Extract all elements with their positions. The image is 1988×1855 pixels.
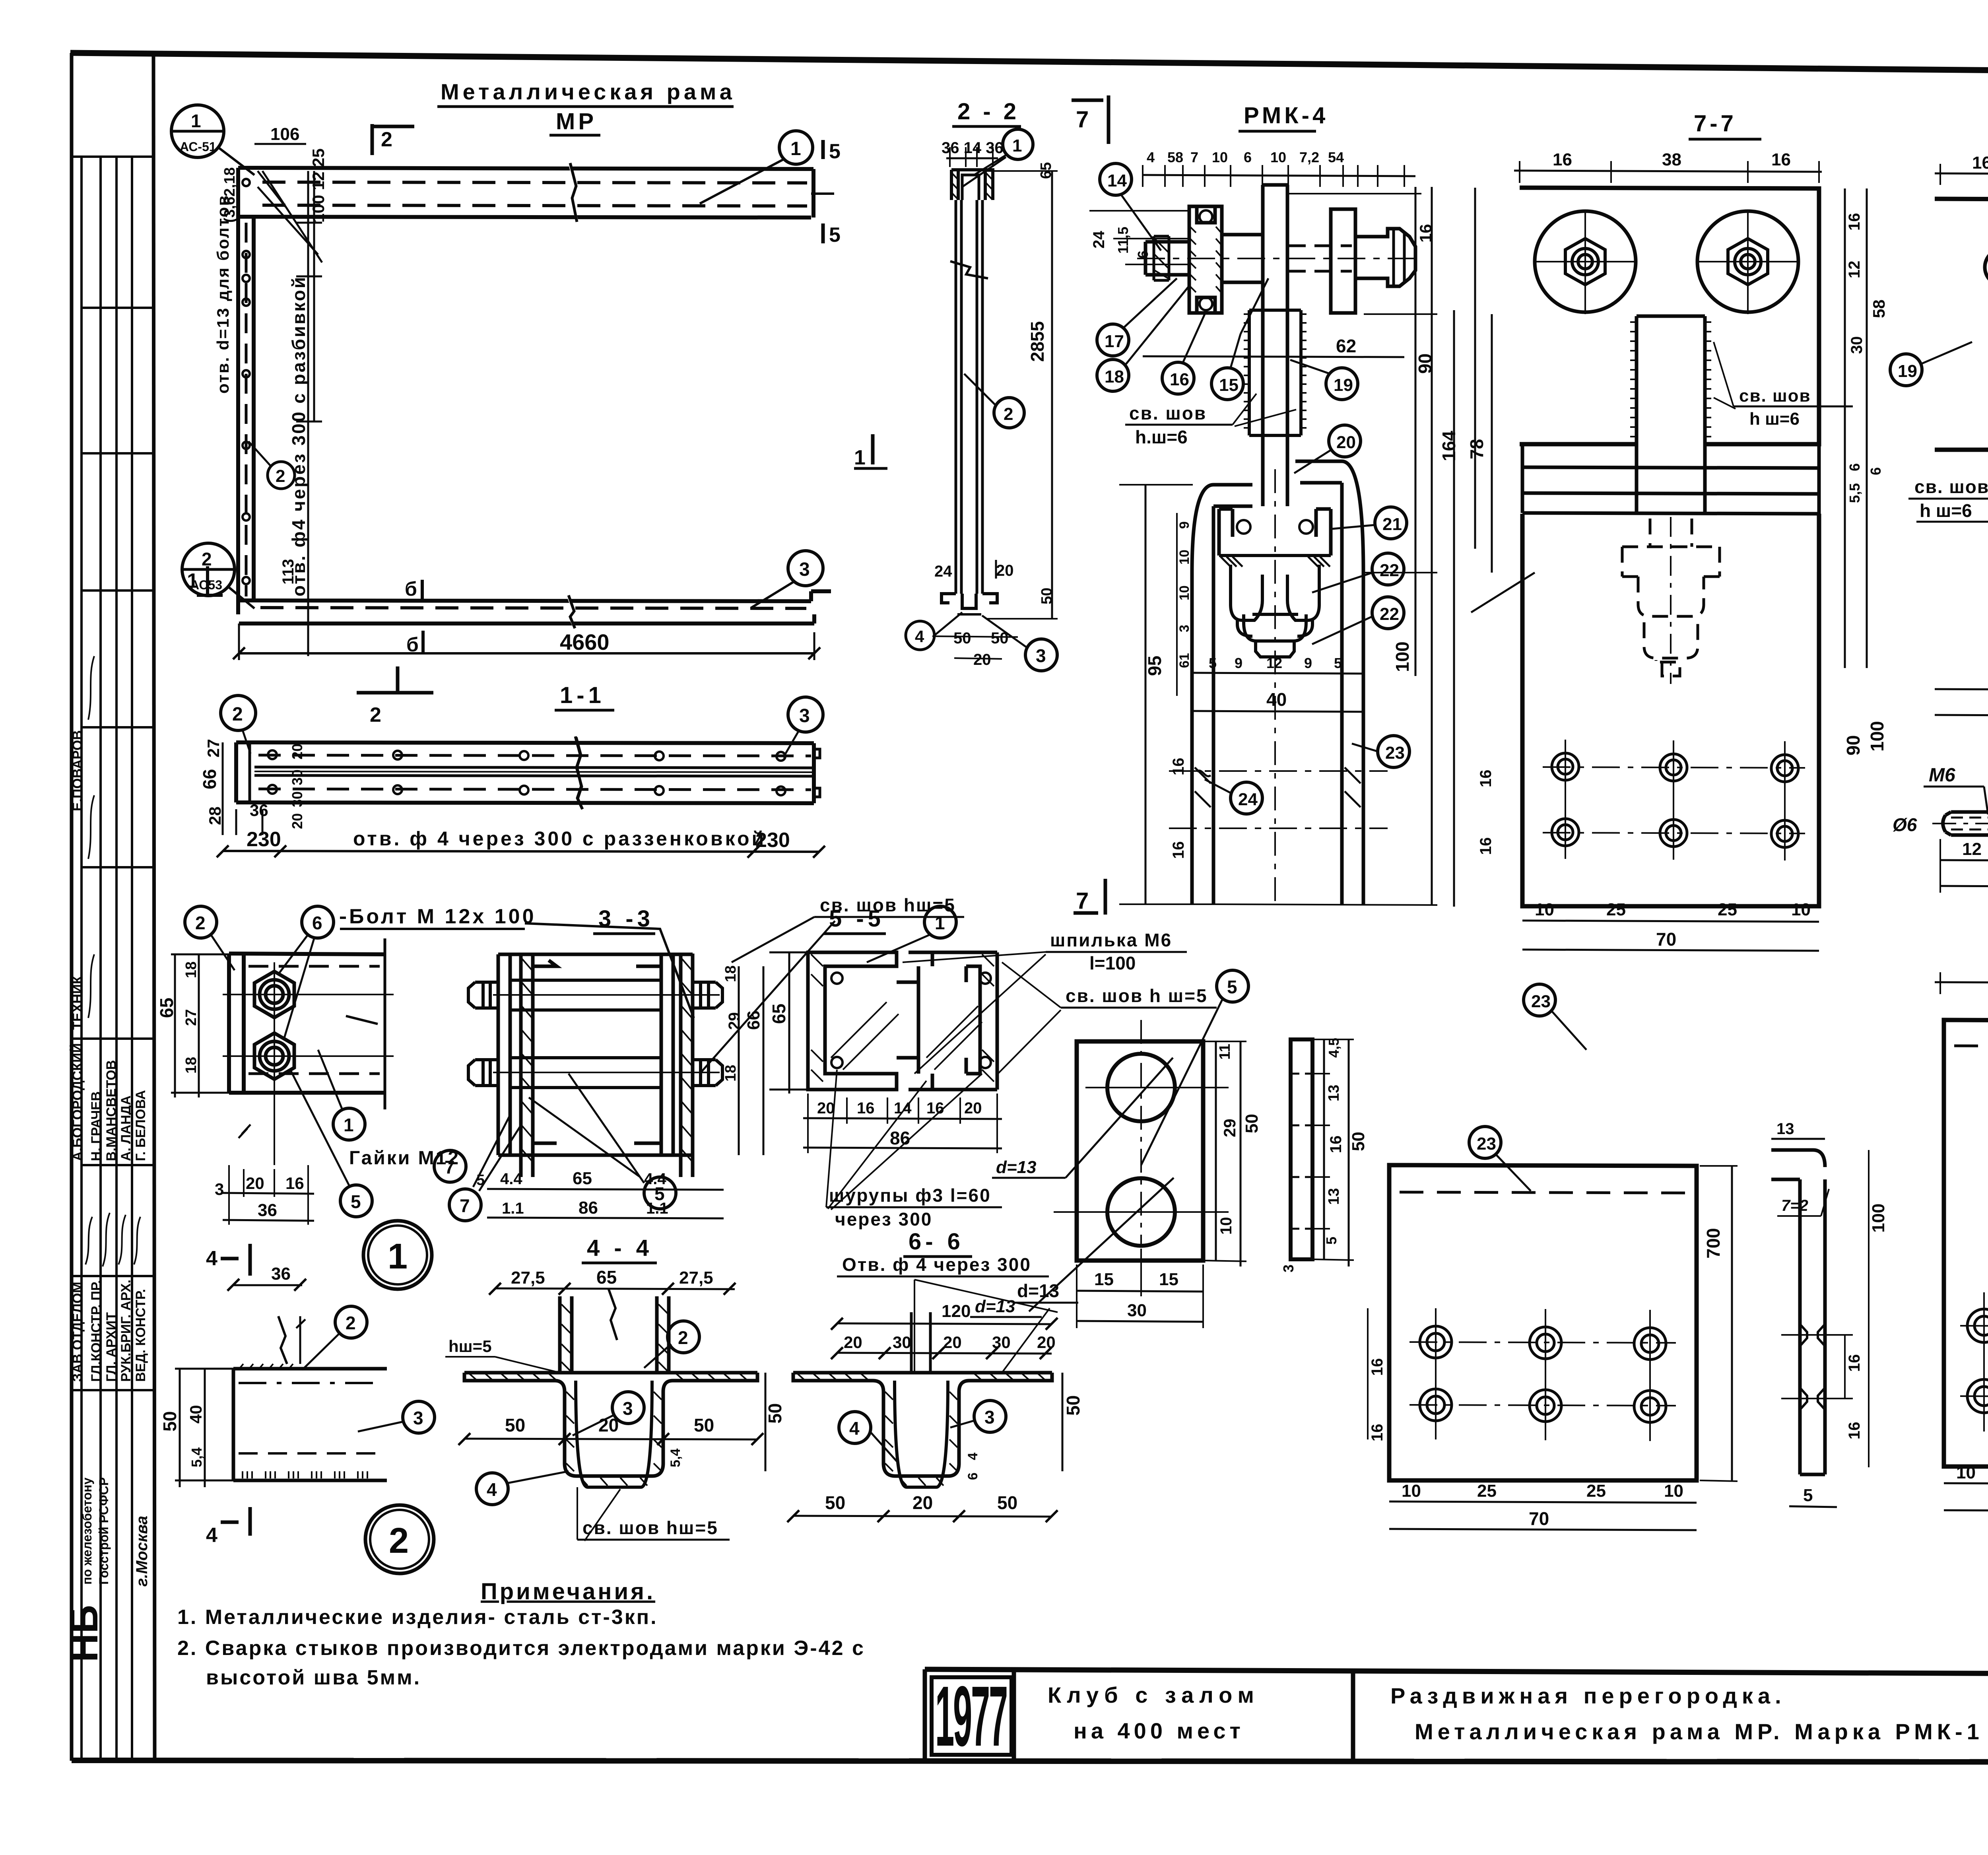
svg-text:Металлическая рама МР. Марк: Металлическая рама МР. Марка РМК-1 bbox=[1415, 1719, 1984, 1744]
svg-text:12: 12 bbox=[1266, 655, 1282, 671]
svg-text:Н. ГРАЧЕВ: Н. ГРАЧЕВ bbox=[89, 1092, 104, 1162]
svg-text:16: 16 bbox=[1170, 758, 1187, 776]
hatch bbox=[469, 1304, 747, 1486]
svg-text:20: 20 bbox=[817, 1099, 835, 1117]
svg-text:90: 90 bbox=[1843, 735, 1864, 756]
svg-text:1: 1 bbox=[790, 138, 801, 159]
section: top flange with two webs bbox=[464, 1296, 757, 1487]
svg-text:1-1: 1-1 bbox=[560, 682, 605, 708]
svg-text:Госстрой РСФСР: Госстрой РСФСР bbox=[97, 1477, 111, 1585]
svg-text:6: 6 bbox=[1135, 251, 1151, 258]
svg-text:4: 4 bbox=[965, 1453, 980, 1460]
svg-text:65: 65 bbox=[769, 1004, 789, 1024]
bearing housing bbox=[1189, 206, 1222, 313]
central tongue with ruler hatch bbox=[1637, 316, 1705, 513]
svg-text:2: 2 bbox=[678, 1327, 688, 1348]
hatch strip in wheel box bbox=[1221, 557, 1330, 567]
svg-text:3: 3 bbox=[799, 705, 810, 726]
svg-text:16: 16 bbox=[1369, 1358, 1386, 1376]
svg-text:4: 4 bbox=[1147, 149, 1155, 165]
svg-text:18: 18 bbox=[183, 1057, 200, 1074]
svg-text:1.1: 1.1 bbox=[646, 1200, 668, 1217]
svg-text:4: 4 bbox=[849, 1418, 860, 1439]
svg-text:2: 2 bbox=[276, 466, 285, 486]
wheels below bbox=[1231, 565, 1319, 657]
svg-text:4.4: 4.4 bbox=[644, 1170, 666, 1188]
svg-text:29: 29 bbox=[726, 1012, 743, 1030]
lower plate bbox=[1522, 514, 1819, 906]
svg-text:20: 20 bbox=[246, 1174, 264, 1193]
svg-text:23: 23 bbox=[1385, 743, 1405, 763]
dims bbox=[1940, 860, 1988, 861]
svg-text:5: 5 bbox=[476, 1172, 485, 1189]
right stack plates bbox=[660, 954, 663, 1155]
big wheels bbox=[1535, 211, 1636, 312]
section mark 1 right of top bar bbox=[871, 434, 875, 464]
svg-text:25: 25 bbox=[1606, 900, 1626, 919]
svg-text:20: 20 bbox=[289, 744, 305, 759]
svg-text:16: 16 bbox=[1477, 770, 1495, 788]
svg-text:27,5: 27,5 bbox=[511, 1268, 545, 1288]
top/bottom connecting profiles bbox=[498, 953, 693, 956]
left vertical bar of frame bbox=[238, 168, 254, 614]
body bbox=[1943, 807, 1988, 840]
svg-text:13: 13 bbox=[1326, 1188, 1342, 1205]
bolt protrusion right bbox=[1355, 229, 1415, 286]
section mark 2 top bbox=[372, 124, 414, 155]
svg-text:2: 2 bbox=[389, 1521, 409, 1561]
svg-text:5: 5 bbox=[1334, 655, 1342, 671]
svg-text:16: 16 bbox=[1416, 224, 1435, 243]
svg-text:1. Металлические изделия- ста: 1. Металлические изделия- сталь ст-3кп. bbox=[177, 1606, 658, 1629]
svg-text:36: 36 bbox=[258, 1200, 277, 1220]
svg-text:2. Сварка стыков производитс: 2. Сварка стыков производится электродам… bbox=[177, 1637, 865, 1660]
svg-text:30: 30 bbox=[289, 791, 305, 807]
svg-text:св. шов: св. шов bbox=[1914, 476, 1988, 497]
svg-text:(3,62,18: (3,62,18 bbox=[221, 167, 238, 223]
corner diagonals leaders bbox=[258, 171, 322, 262]
bottom dims bbox=[487, 1189, 724, 1190]
svg-text:230: 230 bbox=[247, 828, 281, 851]
svg-text:90: 90 bbox=[1415, 354, 1435, 374]
svg-text:21: 21 bbox=[1382, 515, 1402, 534]
svg-text:50: 50 bbox=[825, 1492, 845, 1513]
svg-text:РУК.БРИГ. АРХ.: РУК.БРИГ. АРХ. bbox=[118, 1280, 134, 1382]
6 holes bbox=[1552, 753, 1798, 847]
svg-text:1: 1 bbox=[1012, 136, 1022, 155]
dashed bolt assembly bbox=[1622, 519, 1720, 676]
svg-text:20: 20 bbox=[964, 1099, 982, 1117]
svg-text:113: 113 bbox=[280, 559, 297, 585]
svg-text:61: 61 bbox=[1177, 653, 1192, 668]
svg-text:36 14 36: 36 14 36 bbox=[942, 139, 1004, 157]
svg-text:16: 16 bbox=[1972, 153, 1988, 173]
hex nuts bbox=[254, 971, 294, 1079]
svg-text:10: 10 bbox=[1535, 900, 1554, 919]
right dim stack bbox=[1415, 187, 1432, 904]
svg-text:13: 13 bbox=[1326, 1085, 1342, 1101]
vertical plate bbox=[229, 938, 385, 1109]
holes d=8 bbox=[1985, 249, 1988, 286]
break bbox=[950, 261, 988, 278]
svg-text:10: 10 bbox=[1402, 1481, 1421, 1501]
svg-text:9: 9 bbox=[1304, 655, 1312, 671]
svg-text:10: 10 bbox=[1664, 1481, 1683, 1501]
holes in vertical bar bbox=[243, 179, 250, 584]
leader d=13 bbox=[914, 1280, 1058, 1373]
svg-text:h ш=6: h ш=6 bbox=[1749, 409, 1800, 429]
svg-text:11,5: 11,5 bbox=[1115, 227, 1131, 254]
svg-text:на 400 мест: на 400 мест bbox=[1074, 1718, 1244, 1743]
svg-text:3: 3 bbox=[413, 1408, 423, 1428]
inner U channel bbox=[1233, 509, 1316, 537]
svg-text:2 - 2: 2 - 2 bbox=[957, 99, 1019, 124]
balloon 19 leader on left plate bbox=[1471, 573, 1535, 612]
svg-text:3: 3 bbox=[1036, 645, 1046, 666]
svg-text:4: 4 bbox=[206, 1524, 217, 1547]
svg-text:25: 25 bbox=[1718, 900, 1737, 919]
svg-text:3: 3 bbox=[1280, 1265, 1297, 1272]
svg-text:24: 24 bbox=[1090, 231, 1108, 249]
svg-text:3 -3: 3 -3 bbox=[598, 906, 654, 932]
svg-text:24: 24 bbox=[934, 563, 952, 580]
svg-text:5 -5: 5 -5 bbox=[829, 906, 885, 932]
svg-text:В.МАНСВЕТОВ: В.МАНСВЕТОВ bbox=[104, 1060, 119, 1161]
top dims row bbox=[1143, 175, 1415, 176]
left dim stack bbox=[1145, 485, 1147, 904]
svg-text:23: 23 bbox=[1531, 992, 1551, 1011]
svg-text:10: 10 bbox=[1212, 149, 1228, 165]
svg-text:16: 16 bbox=[1170, 370, 1189, 389]
svg-text:29: 29 bbox=[1220, 1119, 1239, 1137]
svg-text:10: 10 bbox=[1217, 1217, 1235, 1235]
balloon 1 top right bbox=[779, 131, 813, 164]
svg-text:3: 3 bbox=[1177, 625, 1192, 632]
svg-text:2855: 2855 bbox=[1027, 321, 1048, 362]
svg-text:3: 3 bbox=[799, 559, 810, 580]
bottom dims bbox=[1389, 1501, 1697, 1503]
break bbox=[278, 1316, 287, 1364]
svg-text:62: 62 bbox=[1336, 336, 1356, 356]
svg-text:hш=5: hш=5 bbox=[448, 1337, 492, 1356]
svg-text:20: 20 bbox=[844, 1333, 862, 1352]
svg-text:27: 27 bbox=[204, 739, 223, 758]
section shape bbox=[793, 1373, 1052, 1487]
svg-text:МР: МР bbox=[556, 109, 597, 134]
svg-text:ЗАВ ОТДЕЛОМ: ЗАВ ОТДЕЛОМ bbox=[70, 1282, 85, 1382]
svg-text:10: 10 bbox=[1791, 900, 1811, 919]
svg-text:Отв. ф 4 через 300: Отв. ф 4 через 300 bbox=[842, 1254, 1031, 1275]
long thin legs bbox=[956, 200, 982, 594]
svg-text:16: 16 bbox=[1327, 1136, 1345, 1154]
svg-text:2: 2 bbox=[195, 913, 206, 933]
C channel left bbox=[808, 952, 932, 1090]
svg-text:d=13: d=13 bbox=[996, 1158, 1037, 1177]
inner web lines bbox=[576, 1381, 652, 1487]
svg-text:7: 7 bbox=[1076, 107, 1089, 132]
hatch bbox=[797, 1373, 1045, 1486]
svg-text:20: 20 bbox=[973, 651, 991, 668]
right web plate bbox=[657, 1296, 669, 1373]
signature squiggles bbox=[85, 656, 140, 1266]
svg-text:4: 4 bbox=[206, 1247, 217, 1270]
svg-text:16: 16 bbox=[857, 1099, 875, 1117]
balloons bbox=[668, 1321, 699, 1353]
svg-text:18: 18 bbox=[183, 961, 200, 978]
center lines bbox=[223, 962, 394, 1165]
balloons bbox=[185, 906, 217, 938]
balloon 2/AC-53 bottom left bbox=[182, 543, 235, 596]
svg-text:отв. d=13 для болтов: отв. d=13 для болтов bbox=[214, 194, 232, 394]
svg-text:h.ш=6: h.ш=6 bbox=[1135, 427, 1188, 447]
outer U (upside down) bbox=[1192, 485, 1252, 573]
svg-text:50: 50 bbox=[1242, 1114, 1262, 1133]
svg-text:50: 50 bbox=[1063, 1395, 1083, 1416]
section mark 2 bottom bbox=[357, 666, 433, 693]
top border line bbox=[70, 53, 1988, 76]
svg-text:6: 6 bbox=[1846, 463, 1863, 471]
svg-text:58: 58 bbox=[1870, 299, 1888, 318]
hatching on plates bbox=[522, 958, 692, 1161]
svg-text:10: 10 bbox=[1956, 1463, 1976, 1482]
svg-text:16: 16 bbox=[1846, 1354, 1863, 1372]
svg-text:50: 50 bbox=[765, 1403, 785, 1424]
svg-text:16: 16 bbox=[1369, 1424, 1386, 1442]
svg-text:1977: 1977 bbox=[935, 1668, 1007, 1764]
hatch bbox=[811, 954, 994, 1082]
svg-text:9: 9 bbox=[1177, 521, 1192, 529]
leaders to 5 and 7 bbox=[529, 1074, 644, 1183]
break mark bbox=[575, 736, 582, 809]
svg-text:б: б bbox=[405, 578, 417, 600]
center dash-dot vertical bbox=[1274, 469, 1276, 907]
svg-text:1: 1 bbox=[388, 1237, 408, 1276]
top plate bbox=[1520, 188, 1819, 444]
svg-text:Г. БЕЛОВА: Г. БЕЛОВА bbox=[133, 1090, 148, 1161]
svg-text:16: 16 bbox=[926, 1099, 944, 1117]
svg-text:св. шов: св. шов bbox=[1129, 403, 1207, 423]
svg-text:Примечания.: Примечания. bbox=[481, 1579, 655, 1604]
vertical plate bbox=[1263, 185, 1287, 506]
plate bbox=[1935, 199, 1988, 450]
svg-text:св. шов: св. шов bbox=[1739, 386, 1811, 406]
svg-text:4660: 4660 bbox=[560, 629, 610, 655]
bottom dims bbox=[1522, 921, 1819, 922]
left small dims of roller bbox=[1089, 211, 1191, 264]
svg-text:3: 3 bbox=[623, 1398, 633, 1419]
svg-text:ГЛ.КОНСТР. ПР.: ГЛ.КОНСТР. ПР. bbox=[89, 1280, 104, 1382]
svg-text:12: 12 bbox=[1962, 839, 1982, 859]
svg-text:106: 106 bbox=[270, 124, 299, 144]
holes bbox=[1967, 1309, 1988, 1414]
svg-text:6: 6 bbox=[1244, 149, 1252, 165]
svg-text:5: 5 bbox=[351, 1191, 361, 1212]
svg-text:65: 65 bbox=[156, 998, 177, 1018]
svg-text:20: 20 bbox=[289, 813, 305, 829]
title block bbox=[925, 1669, 1988, 1762]
section marker 7 top bbox=[1072, 95, 1109, 144]
weld hatch top bbox=[239, 1364, 293, 1369]
svg-text:40: 40 bbox=[186, 1405, 205, 1424]
svg-text:100 12 25: 100 12 25 bbox=[309, 148, 328, 223]
svg-text:6: 6 bbox=[1868, 467, 1884, 475]
trolley bracket bbox=[1192, 461, 1363, 904]
svg-text:22: 22 bbox=[1380, 561, 1399, 580]
svg-text:4: 4 bbox=[915, 627, 924, 646]
svg-text:95: 95 bbox=[1144, 656, 1165, 676]
svg-text:ГЛ. АРХИТ: ГЛ. АРХИТ bbox=[104, 1312, 119, 1382]
right: flange disc bbox=[1331, 209, 1355, 313]
balloon 1 bbox=[924, 906, 956, 938]
hatch in housing bbox=[1155, 227, 1221, 292]
svg-text:18: 18 bbox=[722, 965, 739, 982]
svg-text:25: 25 bbox=[1586, 1481, 1606, 1501]
svg-text:5,4: 5,4 bbox=[668, 1449, 683, 1467]
svg-text:16: 16 bbox=[285, 1174, 304, 1193]
svg-text:по железобетону: по железобетону bbox=[80, 1478, 94, 1585]
center lines bbox=[1535, 211, 1797, 314]
svg-text:20: 20 bbox=[1037, 1333, 1056, 1352]
balloons left bbox=[1100, 163, 1132, 195]
svg-text:г.Москва: г.Москва bbox=[133, 1516, 151, 1587]
4660 dim bbox=[239, 652, 814, 655]
marker 4 bottom bbox=[221, 1507, 250, 1536]
svg-text:50: 50 bbox=[953, 629, 971, 647]
balloon 23 for 7-7 bottom plate bbox=[1524, 984, 1555, 1016]
bottom tick hatch bbox=[243, 1471, 367, 1478]
svg-text:700: 700 bbox=[1703, 1228, 1724, 1259]
wheel box bbox=[1219, 509, 1331, 556]
svg-text:12: 12 bbox=[1846, 261, 1863, 279]
bottom dims bbox=[1944, 1483, 1988, 1484]
svg-text:18: 18 bbox=[1105, 367, 1124, 387]
big balloons 1 and 2 bbox=[363, 1221, 432, 1289]
svg-text:86: 86 bbox=[579, 1198, 598, 1218]
right end tabs bbox=[814, 749, 820, 797]
balloon 19 bbox=[1890, 354, 1922, 386]
svg-text:100: 100 bbox=[1392, 641, 1413, 672]
C channel right bbox=[909, 952, 997, 1090]
svg-text:высотой шва 5мм.: высотой шва 5мм. bbox=[206, 1666, 421, 1689]
dashed shaft lines bbox=[1288, 246, 1352, 271]
svg-text:l=100: l=100 bbox=[1089, 953, 1136, 973]
svg-text:54: 54 bbox=[1328, 149, 1344, 165]
svg-text:78: 78 bbox=[1466, 439, 1487, 459]
left border line bbox=[70, 53, 74, 1761]
svg-text:6- 6: 6- 6 bbox=[909, 1229, 964, 1255]
svg-text:65: 65 bbox=[596, 1267, 617, 1288]
break mark in flange bbox=[608, 1288, 617, 1340]
svg-text:36: 36 bbox=[250, 801, 268, 820]
bottom foot bbox=[942, 594, 997, 614]
small screws circles bbox=[831, 973, 843, 984]
left stamp rotated texts bbox=[62, 656, 151, 1662]
svg-text:14: 14 bbox=[1107, 171, 1127, 190]
bottom dim line bbox=[223, 851, 819, 852]
top head block bbox=[951, 170, 993, 200]
svg-text:20: 20 bbox=[912, 1492, 933, 1513]
svg-text:св. шов h ш=5: св. шов h ш=5 bbox=[1066, 985, 1208, 1006]
svg-text:2: 2 bbox=[346, 1313, 356, 1333]
svg-text:15: 15 bbox=[1094, 1270, 1114, 1289]
bottom dims 5 9 12 9 5 / 40 bbox=[1193, 673, 1364, 674]
svg-text:50: 50 bbox=[694, 1415, 714, 1435]
notes bbox=[177, 1579, 865, 1689]
svg-text:50: 50 bbox=[505, 1415, 525, 1435]
balloons bbox=[335, 1306, 367, 1338]
rect body bbox=[233, 1369, 387, 1480]
svg-text:58: 58 bbox=[1167, 149, 1183, 165]
svg-text:2: 2 bbox=[370, 703, 381, 726]
svg-text:5,4: 5,4 bbox=[188, 1447, 205, 1467]
svg-text:М6: М6 bbox=[1929, 765, 1955, 786]
svg-text:50: 50 bbox=[1349, 1132, 1368, 1151]
svg-text:1.1: 1.1 bbox=[502, 1200, 524, 1217]
dim extension column right of bar bbox=[296, 171, 322, 656]
svg-text:3: 3 bbox=[984, 1407, 995, 1428]
balloon 5 bbox=[1217, 970, 1248, 1002]
svg-text:4 - 4: 4 - 4 bbox=[587, 1235, 653, 1261]
svg-text:100: 100 bbox=[1867, 721, 1887, 752]
plug welds bbox=[1800, 1324, 1825, 1410]
svg-text:20: 20 bbox=[1336, 433, 1356, 452]
long legs hatch marks bbox=[1195, 767, 1361, 807]
svg-text:16: 16 bbox=[1170, 841, 1187, 859]
hex nuts inside bbox=[1565, 239, 1768, 285]
left 16/16 dims bbox=[1367, 1308, 1369, 1439]
horizontal center lines through holes rows bbox=[1169, 771, 1388, 828]
svg-text:50: 50 bbox=[997, 1492, 1017, 1513]
1977 box bbox=[1012, 1670, 1016, 1761]
svg-text:5: 5 bbox=[829, 223, 841, 247]
svg-text:50: 50 bbox=[159, 1411, 180, 1432]
svg-text:5: 5 bbox=[1803, 1486, 1813, 1505]
svg-text:40: 40 bbox=[1266, 689, 1287, 710]
dividers bbox=[1351, 1670, 1355, 1762]
bearing balls bbox=[1237, 520, 1250, 534]
bottom border line bbox=[72, 1760, 1988, 1762]
svg-text:19: 19 bbox=[1898, 361, 1917, 381]
top bar of frame bbox=[239, 162, 813, 223]
svg-text:через 300: через 300 bbox=[835, 1209, 932, 1230]
svg-text:24: 24 bbox=[1238, 790, 1258, 809]
bottom dims 35 35 / 70 bbox=[1935, 689, 1988, 690]
svg-text:23: 23 bbox=[1477, 1134, 1496, 1154]
svg-text:б: б bbox=[406, 633, 419, 656]
balloon 1 bbox=[1003, 129, 1033, 159]
svg-text:16: 16 bbox=[1553, 150, 1572, 169]
balloons bbox=[221, 695, 256, 730]
svg-text:22: 22 bbox=[1380, 604, 1399, 624]
roller assembly top bbox=[1145, 185, 1415, 506]
svg-text:ВЕД. КОНСТР.: ВЕД. КОНСТР. bbox=[133, 1289, 148, 1382]
svg-text:отв. ф4 через 300 с разбивкой: отв. ф4 через 300 с разбивкой bbox=[288, 276, 309, 596]
right nuts bbox=[693, 982, 722, 1008]
svg-text:20: 20 bbox=[996, 562, 1014, 579]
svg-text:1: 1 bbox=[187, 569, 198, 592]
svg-text:РМК-4: РМК-4 bbox=[1244, 103, 1328, 128]
svg-text:16: 16 bbox=[1846, 213, 1863, 231]
svg-text:10: 10 bbox=[1270, 149, 1286, 165]
svg-text:5: 5 bbox=[1323, 1237, 1340, 1245]
left threaded rod bbox=[1145, 242, 1189, 275]
svg-text:66: 66 bbox=[744, 1010, 763, 1030]
5 cut marks at right end of top bar bbox=[811, 140, 834, 243]
section marker 7 bottom bbox=[1074, 879, 1105, 915]
svg-text:16: 16 bbox=[1771, 150, 1791, 169]
middle band bbox=[1522, 467, 1819, 514]
side dims bbox=[1454, 188, 1475, 907]
